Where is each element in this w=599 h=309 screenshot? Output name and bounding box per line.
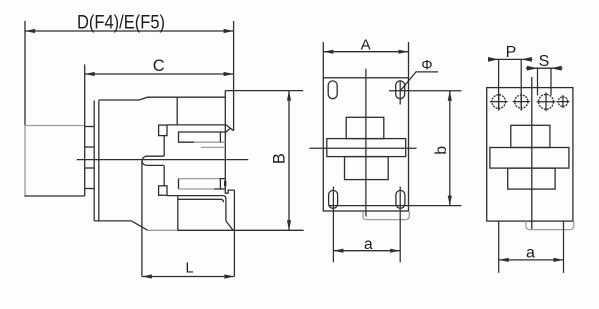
- P left outside arrow: [488, 57, 499, 62]
- a left arrow: [333, 249, 343, 253]
- upper inner vertical: [176, 97, 178, 125]
- S left extension: [537, 68, 539, 95]
- horizontal centerline: [309, 147, 416, 149]
- base front edge / L left extension: [141, 161, 143, 277]
- right lower rectangle: [508, 168, 555, 189]
- upper terminal shelf: [167, 124, 225, 126]
- slot bottom-left: [329, 190, 338, 208]
- lower box inner top edge: [178, 199, 224, 202]
- svg-text:L: L: [185, 261, 193, 277]
- dimension A right arrow: [399, 50, 409, 54]
- lower terminal screw tip blob: [224, 181, 226, 187]
- lower terminal bar top gray part: [179, 178, 220, 180]
- upper terminal bar bottom gray part: [194, 141, 225, 143]
- screw 1 cross: [490, 93, 508, 111]
- top-right hole horizontal centerline / b top extension: [389, 90, 462, 92]
- lower blade right edge / L right extension: [233, 190, 235, 276]
- a right arrow: [554, 258, 564, 262]
- svg-text:A: A: [361, 37, 371, 54]
- ladder rung 2: [85, 146, 95, 148]
- upper blade diagonal bottom: [225, 124, 233, 130]
- dimension D right arrow: [224, 29, 234, 33]
- lower terminal bar bottom black part: [214, 188, 225, 190]
- screw 3 cross: [537, 92, 556, 111]
- svg-text:D(F4)/E(F5): D(F4)/E(F5): [77, 12, 165, 34]
- body front edge: [224, 91, 226, 189]
- svg-text:a: a: [526, 244, 535, 261]
- a right-view right extension: [563, 221, 565, 273]
- bottom edge black / B bottom extension: [178, 229, 304, 231]
- dimension a line (middle): [333, 250, 400, 252]
- ladder rung 3: [85, 167, 95, 169]
- center lower rectangle: [345, 157, 389, 180]
- screw circle 2: [515, 95, 528, 108]
- upper terminal screw bar: [179, 132, 226, 142]
- upper terminal screw divider: [219, 132, 221, 142]
- P right extension: [520, 59, 522, 110]
- svg-text:Φ: Φ: [421, 56, 432, 72]
- dimension S line: [526, 67, 563, 69]
- S right outside arrow: [551, 66, 562, 71]
- lower clamp hook: [159, 186, 167, 196]
- screw circle 3: [539, 94, 554, 109]
- right upper rectangle: [511, 125, 550, 147]
- dimension A left arrow: [323, 50, 333, 54]
- rear block gray divider: [24, 125, 84, 127]
- clamp mid vertical lower: [163, 165, 165, 185]
- plate outline: [323, 78, 408, 211]
- svg-text:b: b: [433, 146, 450, 155]
- lower blade notch: [225, 189, 234, 193]
- center profile line: [531, 77, 533, 230]
- S left outside arrow: [527, 66, 538, 71]
- svg-text:C: C: [153, 57, 165, 75]
- body outline: [487, 88, 573, 222]
- svg-text:S: S: [539, 53, 550, 70]
- screw 2 cross: [513, 93, 530, 110]
- b bottom arrow: [448, 196, 452, 206]
- svg-text:B: B: [271, 153, 289, 164]
- upper blade tip notch: [225, 128, 230, 132]
- centerline: [77, 159, 249, 161]
- bottom diagonal: [131, 221, 147, 230]
- right wide bar: [490, 148, 569, 169]
- bottom tab (gray): [363, 211, 409, 219]
- A right extension: [408, 42, 410, 78]
- upper clamp hook: [159, 125, 167, 136]
- right bottom tab (gray): [526, 221, 574, 230]
- dimension B top arrow: [287, 91, 291, 101]
- extension line (C left) / rear block right edge: [84, 65, 86, 197]
- mounting plate front line: [93, 100, 95, 220]
- dimension L right arrow: [224, 274, 234, 278]
- lower box left edge: [177, 196, 179, 231]
- lower terminal screw bar: [179, 179, 226, 189]
- ladder rung 1: [85, 126, 95, 128]
- vertical centerline: [365, 69, 367, 217]
- svg-text:P: P: [506, 44, 517, 61]
- top-right hole vertical centerline: [399, 80, 401, 104]
- a right arrow: [390, 249, 400, 253]
- center pin: [142, 156, 164, 165]
- bottom gray segment: [148, 229, 178, 231]
- svg-text:a: a: [364, 236, 373, 253]
- inner gray line upper: [201, 146, 224, 148]
- ladder rung 4: [85, 188, 95, 190]
- dimension D(F4)/E(F5) line: [25, 30, 234, 32]
- extension line right (D,C) / upper blade right edge: [233, 21, 235, 131]
- bottom holes line / b bottom extension: [328, 205, 461, 207]
- dimension L line: [142, 276, 235, 278]
- center wide bar: [327, 139, 406, 157]
- a left arrow: [499, 258, 509, 262]
- rear block gray left edge: [24, 126, 26, 197]
- A left extension: [322, 42, 324, 78]
- dimension A line: [323, 51, 408, 53]
- dimension L left arrow: [142, 274, 152, 278]
- lower box top edge: [167, 196, 226, 221]
- mounting plate rear line: [98, 100, 100, 220]
- upper blade top edge (B extension start): [225, 90, 303, 92]
- extension line left (D) / rear block left edge: [24, 21, 26, 126]
- P right outside arrow: [521, 57, 532, 62]
- lower blade diagonal: [226, 221, 233, 230]
- dimension a line (right view): [499, 259, 564, 261]
- dimension C right arrow: [224, 72, 234, 76]
- phi leader line: [400, 72, 438, 91]
- dimension b line: [449, 91, 451, 206]
- dimension P line: [488, 58, 532, 60]
- rear block bottom edge: [24, 195, 84, 197]
- screw circle 1: [492, 95, 506, 109]
- P left extension: [498, 59, 500, 110]
- slot top-left: [328, 81, 337, 99]
- screw 4 cross: [556, 95, 569, 108]
- dimension D left arrow: [25, 29, 35, 33]
- center upper rectangle: [346, 117, 384, 138]
- plate bottom horizontal: [94, 220, 131, 222]
- dimension B line: [288, 91, 290, 231]
- dimension B bottom arrow: [287, 220, 291, 230]
- a right extension: [399, 187, 401, 263]
- clamp mid vertical upper: [163, 136, 165, 157]
- lower terminal bar bottom gray part: [179, 188, 215, 190]
- dimension C left arrow: [85, 72, 95, 76]
- a right-view left extension: [498, 221, 500, 273]
- dimension C line: [85, 73, 234, 75]
- slot top-right: [396, 81, 405, 99]
- b top arrow: [448, 91, 452, 101]
- screw circle 4: [558, 97, 568, 107]
- S right extension: [550, 68, 552, 95]
- a left extension: [332, 187, 334, 263]
- slot bottom-right: [396, 190, 405, 208]
- body top edge: [99, 97, 226, 100]
